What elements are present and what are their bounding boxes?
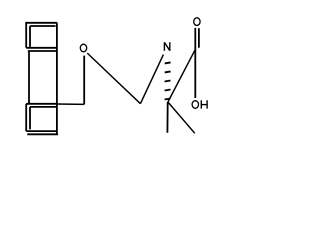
ring double-bond line below top box — [28, 50, 57, 52]
atom label OH: O ring — [192, 101, 198, 109]
double bond C=O line 1 — [194, 28, 196, 50]
bond methyl 2 — [168, 102, 195, 133]
ring top box outer edges — [26, 23, 57, 48]
atom label OH: H strokes — [201, 100, 207, 108]
ring top box bottom edge — [26, 47, 57, 49]
ring bottom box inner double-bond lines — [30, 107, 57, 129]
ring top box inner double-bond lines — [30, 26, 56, 47]
bond quaternary C to carboxyl C — [168, 49, 195, 102]
ring double-bond line below bottom box — [27, 133, 58, 135]
ring middle left edge bond — [28, 51, 30, 104]
ring bottom box top edge — [26, 103, 57, 105]
atom label O ether — [80, 44, 86, 52]
ring bottom box bottom edge — [26, 130, 57, 132]
ring right edge bond — [56, 23, 58, 134]
atom label O carbonyl — [194, 18, 200, 26]
hashed stereo bond N to C (5 dashes) — [165, 62, 171, 99]
bond C to hydroxyl O — [194, 49, 196, 98]
bond methyl 1 — [166, 102, 168, 133]
wire ring to O vertical — [57, 103, 84, 105]
double bond C=O line 2 — [198, 28, 200, 48]
atom label N — [164, 42, 169, 51]
bond CH2 to ether O vertical — [83, 56, 85, 105]
bond CH2 to N — [140, 55, 163, 104]
ring bottom box left edge — [25, 104, 27, 131]
bond O to CH2 — [87, 53, 140, 104]
